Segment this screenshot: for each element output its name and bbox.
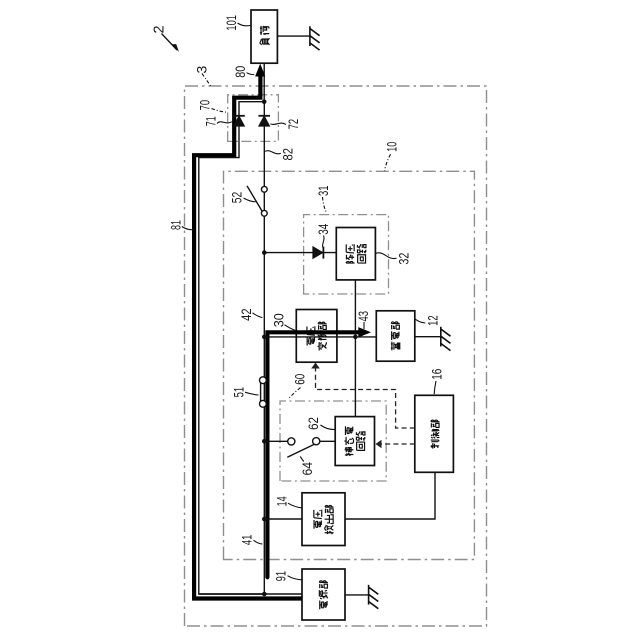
dashed box 70 (diode pair block) xyxy=(228,95,279,142)
thick power path 81/80 from power supply to load xyxy=(194,76,302,599)
arrowhead 80 into load xyxy=(255,64,265,77)
load ground stem xyxy=(277,35,310,37)
ground at load xyxy=(310,26,320,50)
svg-text:2: 2 xyxy=(152,25,168,33)
node to step-down branch xyxy=(262,250,267,255)
arrow into converter 30 xyxy=(311,363,320,369)
dashed box 60 (supplementary charge block) xyxy=(280,401,386,481)
dashed box 31 (step-down block) xyxy=(304,215,389,294)
node charge output joins converter line xyxy=(353,335,358,340)
switch 51 (closed) xyxy=(260,377,267,407)
storage unit box 12 蓄電部 xyxy=(376,311,415,361)
node at power supply wire xyxy=(262,592,267,597)
control line 16 to converter 30 xyxy=(316,368,415,429)
diode 71 xyxy=(233,116,245,126)
power supply ground stem xyxy=(345,594,369,596)
wire charge circuit 62 output to node xyxy=(354,280,356,417)
svg-text:43: 43 xyxy=(355,311,371,322)
負荷 xyxy=(260,26,270,45)
branch wire to voltage detector 14 xyxy=(264,518,302,520)
node to converter branch xyxy=(262,335,267,340)
step-down circuit box 32 降圧回路 xyxy=(336,228,375,280)
svg-text:10: 10 xyxy=(383,142,399,152)
diode 72 xyxy=(258,116,270,126)
svg-text:34: 34 xyxy=(315,224,331,235)
node to detector branch xyxy=(262,517,267,522)
ground at power supply xyxy=(369,585,379,609)
arrow of label 2 xyxy=(162,34,178,51)
controller box 16 制御部 xyxy=(415,395,454,472)
node at diode output to load xyxy=(262,99,267,104)
svg-text:81: 81 xyxy=(167,220,183,230)
svg-text:64: 64 xyxy=(299,462,315,476)
svg-text:41: 41 xyxy=(239,534,255,545)
svg-text:32: 32 xyxy=(396,252,412,264)
svg-text:52: 52 xyxy=(229,192,245,204)
wire to step-down circuit 32 input xyxy=(264,252,336,254)
svg-text:31: 31 xyxy=(315,185,331,196)
long distribution wire (line 41/82) xyxy=(263,102,265,594)
voltage detector box 14 電圧検出部 xyxy=(302,493,345,546)
svg-text:72: 72 xyxy=(285,119,301,130)
svg-text:101: 101 xyxy=(223,15,239,31)
voltage converter box 30 電圧変換部 xyxy=(296,310,337,363)
svg-text:51: 51 xyxy=(230,387,246,398)
svg-text:30: 30 xyxy=(270,313,286,327)
storage ground stem xyxy=(415,336,441,338)
svg-text:82: 82 xyxy=(280,148,296,161)
svg-text:14: 14 xyxy=(273,496,289,506)
switch 52 (open) xyxy=(247,186,267,216)
thick charge path 42/43 into storage xyxy=(267,332,358,577)
load box 101 xyxy=(251,10,277,63)
svg-text:12: 12 xyxy=(424,315,440,326)
diode 34 xyxy=(313,247,324,259)
wire detector 14 to controller 16 xyxy=(345,472,435,519)
svg-text:80: 80 xyxy=(232,66,248,78)
switch 64 (open) xyxy=(287,438,320,458)
svg-text:70: 70 xyxy=(197,100,213,111)
wire 91 power supply to line xyxy=(199,593,302,595)
ground at storage unit xyxy=(441,327,451,351)
inner dash-dot box 10 (power supply device) xyxy=(224,171,475,559)
svg-text:16: 16 xyxy=(428,369,444,380)
arrow into charge circuit 62 xyxy=(376,440,382,449)
arrowhead 43 into storage unit xyxy=(358,327,371,337)
branch wire to switch 64 / charge circuit 62 xyxy=(264,440,335,442)
node to charge circuit branch xyxy=(262,439,267,444)
wire through converter 30 to storage 12 xyxy=(264,336,376,338)
supplementary charge circuit box 62 補充電回路 xyxy=(335,417,374,466)
svg-text:71: 71 xyxy=(203,116,219,126)
main wire from power supply line to load (stair) xyxy=(199,63,264,594)
power supply box 91 電源部 xyxy=(302,569,345,620)
system outer dash-dot box 3 xyxy=(185,86,487,626)
svg-text:60: 60 xyxy=(291,374,307,385)
control line 16 to charge circuit 62 xyxy=(381,443,415,445)
svg-text:42: 42 xyxy=(238,308,254,321)
svg-text:91: 91 xyxy=(273,571,289,582)
svg-text:62: 62 xyxy=(305,417,321,430)
svg-text:3: 3 xyxy=(194,66,210,74)
